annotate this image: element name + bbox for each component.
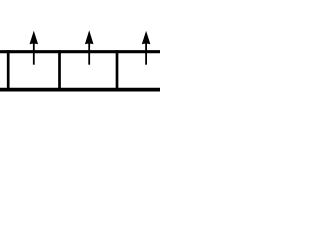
- wire top feed line: [0, 50, 160, 53]
- radiating element arrow 3 shaft: [145, 43, 147, 65]
- radiating element arrow 2 head: [85, 30, 94, 44]
- radiating element arrow 2 shaft: [88, 43, 90, 65]
- radiating element arrow 1 head: [30, 31, 39, 44]
- ground plane bottom rail: [0, 88, 160, 92]
- shorting post 2: [58, 50, 61, 91]
- radiating element arrow 1 shaft: [33, 43, 35, 65]
- radiating element arrow 3 head: [142, 31, 151, 44]
- shorting post 3: [116, 50, 119, 91]
- shorting post 1: [7, 50, 10, 91]
